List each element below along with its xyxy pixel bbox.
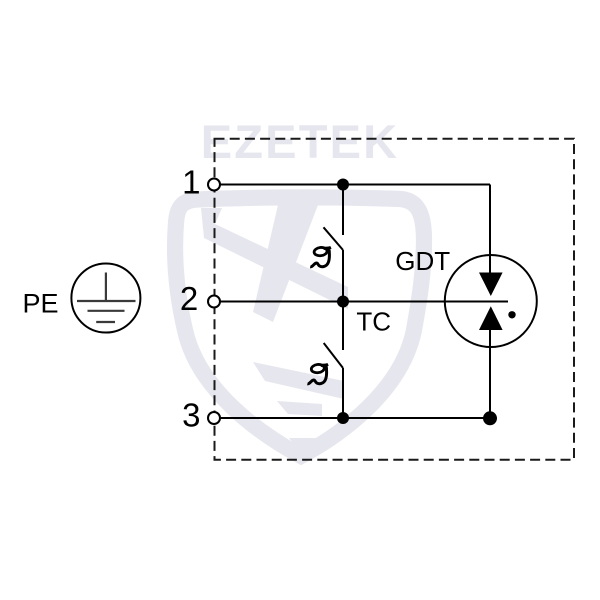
PE earth vertical <box>105 273 107 302</box>
junction node 1 <box>337 179 349 191</box>
switch TC2 lever <box>324 343 343 368</box>
wire right vertical bottom <box>489 330 491 418</box>
bolt stripe 2 <box>277 401 322 416</box>
junction node 2 <box>337 296 349 308</box>
switch TC1 lever <box>324 227 344 250</box>
thermal symbol theta 1 <box>310 247 331 267</box>
GDT gas dot <box>508 311 515 318</box>
PE earth bar mid <box>88 310 125 312</box>
PE earth circle <box>71 264 140 333</box>
shield outline <box>175 197 424 456</box>
wire right vertical top <box>489 185 491 273</box>
bolt tip triangle <box>289 438 316 454</box>
terminal 1 <box>208 179 220 191</box>
bolt stem <box>253 205 318 322</box>
watermark logo EZETEK <box>175 115 424 456</box>
wire line 2 <box>220 301 508 303</box>
GDT electrode bottom triangle <box>479 306 503 330</box>
GDT U1 circle <box>445 255 537 347</box>
PE earth bar long <box>77 300 136 302</box>
svg-text:PE: PE <box>23 289 59 319</box>
wire line 3 <box>220 417 490 419</box>
svg-text:EZETEK: EZETEK <box>201 115 400 168</box>
junction node right <box>483 411 497 425</box>
svg-text:TC: TC <box>356 307 391 337</box>
terminal 2 <box>208 296 220 308</box>
junction node 3 <box>337 412 349 424</box>
thermal symbol theta 2 <box>307 364 328 384</box>
wire line 1 <box>220 184 490 186</box>
svg-text:2: 2 <box>180 280 198 317</box>
wire center vertical seg a <box>342 185 344 236</box>
PE earth bar short <box>96 321 115 323</box>
bolt stripe 1 <box>253 362 344 399</box>
wire center vertical seg d <box>342 368 344 418</box>
terminal 3 <box>208 412 220 424</box>
svg-text:1: 1 <box>182 163 200 200</box>
wire center vertical seg c <box>342 302 344 351</box>
GDT electrode top triangle <box>479 273 503 297</box>
enclosure dashed border <box>215 139 575 460</box>
svg-text:GDT: GDT <box>395 246 450 276</box>
bolt diagonal <box>201 208 348 309</box>
svg-text:3: 3 <box>182 396 200 433</box>
wire center vertical seg b <box>342 250 344 302</box>
